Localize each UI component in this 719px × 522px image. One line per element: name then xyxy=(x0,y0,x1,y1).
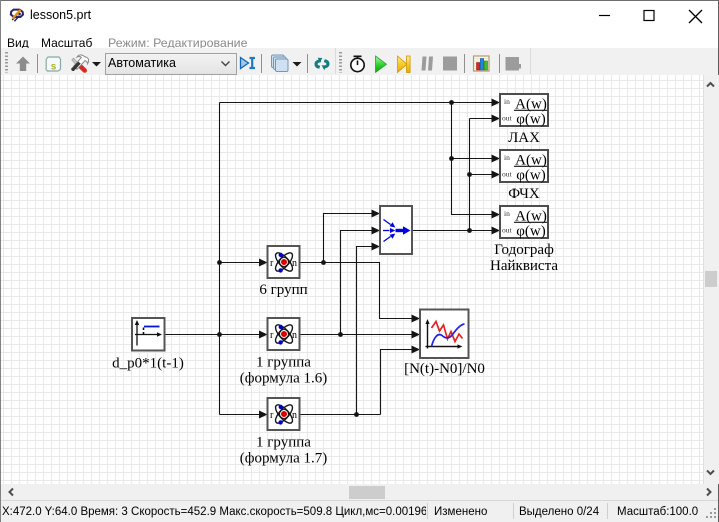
svg-text:n: n xyxy=(292,330,297,341)
menu bar xyxy=(1,31,718,48)
status bar xyxy=(1,500,718,522)
block mux xyxy=(380,206,412,254)
layered squares icon xyxy=(272,55,289,72)
svg-text:φ(w): φ(w) xyxy=(516,112,545,128)
wire out-chain to LAH out xyxy=(470,118,492,120)
step/skip icon xyxy=(398,56,411,73)
wire junction to block 1.7 xyxy=(220,414,260,416)
svg-text:in: in xyxy=(504,97,510,106)
chart icon xyxy=(474,56,490,71)
svg-text:(формула 1.7): (формула 1.7) xyxy=(240,451,327,467)
dropdown triangle 2 xyxy=(293,62,302,67)
block atom 1 group formula 1.7 xyxy=(268,398,300,430)
block atom 1 group formula 1.6 xyxy=(268,318,300,350)
wire in-chain vertical xyxy=(452,103,492,215)
svg-text:[N(t)-N0]/N0: [N(t)-N0]/N0 xyxy=(404,361,485,377)
app icon xyxy=(9,7,25,22)
svg-text:d_p0*1(t-1): d_p0*1(t-1) xyxy=(112,356,184,372)
wire riser 1.7 to mux bottom xyxy=(357,247,372,415)
svg-text:1 группа: 1 группа xyxy=(256,355,311,371)
teal sync icon xyxy=(314,58,329,70)
block LAH A(w) xyxy=(500,94,548,128)
wire left vertical bus xyxy=(219,103,221,415)
svg-text:n: n xyxy=(292,258,297,269)
svg-text:in: in xyxy=(504,209,510,218)
title bar xyxy=(1,1,718,31)
svg-text:1 группа: 1 группа xyxy=(256,435,311,451)
toolbar xyxy=(1,48,718,76)
pause icon xyxy=(422,57,434,71)
svg-text:Найквиста: Найквиста xyxy=(490,258,558,274)
svg-text:n: n xyxy=(292,410,297,421)
svg-text:s: s xyxy=(51,62,57,73)
canvas with grid xyxy=(1,75,703,484)
wire out-chain branch FCH out xyxy=(470,174,492,176)
combo chevron xyxy=(222,62,230,66)
block source step d_p0*1(t-1) xyxy=(132,318,165,351)
dropdown triangle 1 xyxy=(92,62,101,67)
svg-text:out: out xyxy=(502,114,513,123)
stop icon xyxy=(443,57,457,71)
wire mux out to godograph out xyxy=(412,230,492,232)
svg-text:ФЧХ: ФЧХ xyxy=(508,186,540,202)
arrowheads xyxy=(259,259,268,267)
wire junction to block 6groups xyxy=(220,262,260,264)
svg-text:φ(w): φ(w) xyxy=(516,224,545,240)
block FCH A(w) xyxy=(500,150,548,184)
wire top bus xyxy=(220,102,492,104)
script icon xyxy=(46,57,61,73)
wire 1.7 to graph bottom input xyxy=(381,350,412,415)
svg-text:Годограф: Годограф xyxy=(494,242,554,258)
svg-text:in: in xyxy=(504,153,510,162)
wire out-chain vertical xyxy=(469,119,471,231)
step-into blue icon xyxy=(241,58,256,69)
tools icon xyxy=(71,55,88,71)
wire in-chain branch FCH xyxy=(452,158,492,160)
wire 6groups out to mux xyxy=(300,214,372,263)
svg-text:(формула 1.6): (формула 1.6) xyxy=(240,371,327,387)
block godograph A(w) xyxy=(500,206,548,240)
horizontal scrollbar xyxy=(1,484,718,500)
svg-text:6 групп: 6 групп xyxy=(259,282,307,298)
wire riser 1.6 to mux middle xyxy=(341,231,372,335)
wire 6groups out to graph top input xyxy=(324,263,412,319)
junction dots xyxy=(449,100,454,105)
block atom 6 groups xyxy=(268,246,300,278)
wire 1.7 out xyxy=(300,414,381,416)
wire junction to block 1.6 xyxy=(220,334,260,336)
up arrow icon xyxy=(16,57,30,72)
svg-text:out: out xyxy=(502,226,513,235)
window buttons xyxy=(590,6,710,26)
svg-text:ЛАХ: ЛАХ xyxy=(508,130,540,146)
wire 1.6 out to graph middle input xyxy=(300,334,412,336)
vertical scrollbar xyxy=(703,75,719,484)
exit/report icon xyxy=(506,57,522,71)
play icon xyxy=(376,56,387,73)
svg-text:out: out xyxy=(502,170,513,179)
block graph xyxy=(420,310,469,359)
svg-text:φ(w): φ(w) xyxy=(516,168,545,184)
wire source to junction xyxy=(165,334,220,336)
stopwatch icon xyxy=(351,56,364,71)
